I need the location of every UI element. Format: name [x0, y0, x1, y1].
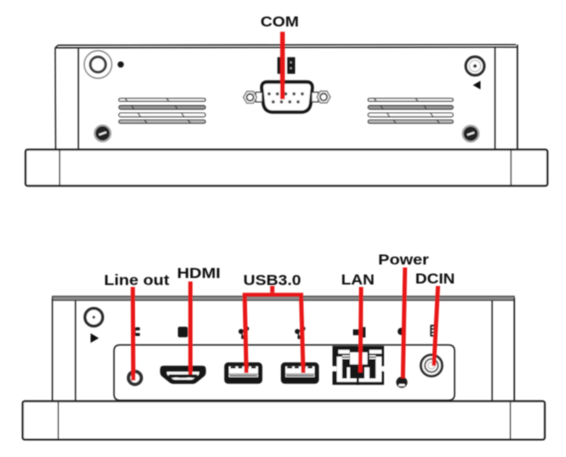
DB9 pins row2 [272, 100, 300, 103]
base inner left vertical [59, 151, 61, 186]
Line out jack [129, 372, 142, 385]
triangle marker (points left) [473, 81, 481, 90]
antenna hole (double circle) top-left [84, 51, 112, 79]
USB icon 2 [295, 327, 305, 338]
HDMI icon [178, 327, 188, 338]
base inner right vertical [509, 402, 511, 439]
DB9 COM connector [262, 82, 313, 112]
DB9 pins row1 [268, 92, 304, 95]
body left outer edge [51, 298, 53, 401]
body top edge gray band [52, 296, 514, 300]
screw bottom-left [95, 125, 111, 141]
base inner right vertical [510, 151, 512, 186]
svg-text:DCIN: DCIN [415, 271, 455, 287]
svg-text:COM: COM [261, 14, 299, 30]
COM callout line [280, 32, 285, 99]
LAN callout line [358, 287, 363, 373]
HDMI port [160, 366, 206, 384]
power icon [398, 328, 405, 335]
DCIN icon [430, 325, 435, 337]
SMA antenna connector top-right [466, 57, 484, 75]
body top edge double line [55, 45, 517, 48]
body left outer edge [54, 48, 56, 150]
Line out callout line [131, 287, 136, 381]
jumper block left (behind COM line) [277, 57, 284, 74]
body right outer edge [516, 45, 518, 150]
USB3.0 callout bracket [270, 286, 274, 293]
base of bottom view [23, 401, 545, 439]
svg-text:HDMI: HDMI [177, 266, 221, 282]
vent slots left group [119, 98, 205, 123]
USB3.0 port 2 [281, 362, 319, 383]
SMA antenna connector bottom-left [85, 308, 103, 326]
small black dot [118, 61, 124, 67]
base (stand flange) of top view [26, 150, 548, 186]
DB9 left hex nut [243, 91, 256, 103]
body left inner edge [77, 48, 79, 150]
vent slots right group [368, 98, 453, 123]
screw bottom-right [463, 126, 479, 142]
DCIN jack [421, 355, 442, 376]
DB9 right hex nut [317, 91, 330, 103]
USB icon 1 [239, 327, 249, 338]
Power callout line [401, 268, 407, 379]
svg-text:LAN: LAN [341, 273, 374, 289]
body right inner edge [494, 47, 496, 149]
body left inner edge [75, 300, 77, 401]
port recess panel [114, 345, 455, 400]
headset icon [133, 327, 140, 336]
svg-text:Power: Power [378, 252, 429, 268]
DCIN callout line [432, 286, 440, 366]
triangle marker (points right) [91, 333, 99, 343]
jumper block right [287, 57, 295, 74]
body right outer edge [513, 298, 515, 401]
DB9 left bracket [256, 92, 262, 102]
LAN icon [353, 327, 366, 337]
body right inner edge [491, 300, 493, 401]
base inner left vertical [57, 402, 59, 439]
power button [396, 377, 407, 388]
svg-text:Line out: Line out [104, 273, 170, 289]
DB9 right bracket [312, 92, 319, 102]
USB3.0 port 1 [224, 362, 262, 383]
LAN RJ45 port [333, 346, 385, 385]
HDMI callout line [188, 282, 192, 375]
